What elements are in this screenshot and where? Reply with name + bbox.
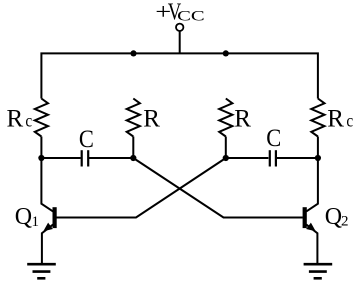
svg-text:2: 2: [341, 213, 349, 229]
svg-text:R: R: [234, 105, 251, 132]
svg-text:c: c: [346, 111, 353, 131]
svg-text:C: C: [266, 125, 281, 152]
svg-text:c: c: [25, 111, 32, 131]
svg-text:R: R: [327, 105, 344, 132]
svg-text:R: R: [143, 106, 160, 133]
svg-text:Q: Q: [325, 204, 342, 230]
svg-text:C: C: [79, 126, 94, 153]
svg-text:Q: Q: [15, 204, 32, 230]
svg-text:CC: CC: [177, 8, 205, 24]
svg-text:1: 1: [32, 214, 40, 230]
svg-text:R: R: [7, 105, 24, 132]
